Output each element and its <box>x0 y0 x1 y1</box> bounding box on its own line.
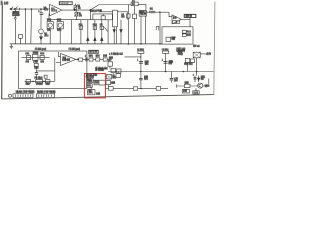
svg-text:+5V: +5V <box>168 63 172 65</box>
wire W4 top rail <box>99 4 132 6</box>
svg-text:Tx 8R2: Tx 8R2 <box>137 50 145 52</box>
resistor RB2 <box>134 6 136 14</box>
svg-text:4.7k: 4.7k <box>79 14 82 17</box>
svg-text:LM1458: LM1458 <box>62 59 71 62</box>
wire W2 output <box>62 9 90 11</box>
svg-text:MIX IN: MIX IN <box>185 16 192 18</box>
wire verticals from TB <box>113 27 115 44</box>
ground symbol <box>10 44 12 47</box>
connector tick J3 <box>19 8 21 10</box>
svg-text:D11 D12: D11 D12 <box>184 64 193 66</box>
wire relay right <box>200 53 205 55</box>
resistor RC2 <box>96 58 100 61</box>
resistor box on W9 mid <box>133 87 137 90</box>
resistor box on W9 right <box>156 87 160 91</box>
wire verticals from IC bottom <box>140 16 142 44</box>
capacitor C20 <box>139 61 143 63</box>
resistor R5 <box>74 4 76 11</box>
wire W1 input rail <box>10 8 50 10</box>
resistor in red box right <box>94 81 99 85</box>
resistor RB4 <box>26 80 31 84</box>
svg-text:1A: 1A <box>132 3 135 6</box>
wire drop to bus x160 <box>159 12 161 44</box>
resistor on W9 <box>109 87 114 91</box>
tick marks mid-right <box>113 30 115 33</box>
resistor in FB left <box>166 37 171 41</box>
resistor RB5 <box>45 80 50 84</box>
diode boxes mid <box>185 58 189 62</box>
node dots on bus <box>128 43 129 44</box>
label box LB2 <box>184 14 196 18</box>
wire W9 rail <box>105 87 108 89</box>
resistor R8 <box>79 58 83 61</box>
wire vertical x25.4 <box>24 9 26 44</box>
capacitor C31 <box>196 72 198 76</box>
red box internal wires <box>89 82 91 83</box>
bus ground rail <box>10 43 162 45</box>
svg-text:LEVEL: LEVEL <box>13 15 21 17</box>
wire vertical x31.5 <box>30 9 33 44</box>
connector J4 below B1 <box>14 16 16 18</box>
IC block TB <box>113 10 118 27</box>
svg-text:RV101: RV101 <box>36 84 43 86</box>
resistor RC1 <box>89 58 93 61</box>
svg-text:STB IN: STB IN <box>90 52 97 54</box>
capacitor C1 <box>40 9 42 13</box>
svg-text:OSC/LINE: OSC/LINE <box>60 3 69 5</box>
resistor RB1 <box>127 5 129 14</box>
resistor RD2 <box>117 69 122 73</box>
svg-text:TL071: TL071 <box>51 10 58 12</box>
resistor RA3 below <box>35 60 37 63</box>
wire Q5 right <box>203 85 209 87</box>
svg-text:HEAD (TOP VIEW): HEAD (TOP VIEW) <box>16 91 35 94</box>
svg-text:+12V: +12V <box>206 54 212 56</box>
wire W8 long rail <box>108 71 214 73</box>
wire A out to C20 node <box>125 56 141 58</box>
page border right <box>214 2 215 95</box>
svg-text:2t shield: 2t shield <box>95 69 104 72</box>
wire down and across <box>35 67 37 71</box>
capacitor C30 bottom-left-right <box>170 72 172 79</box>
fuse F1 <box>131 2 138 6</box>
wire W3 lower rail <box>49 19 112 21</box>
node dots W8 <box>140 71 141 72</box>
wire IC2 out <box>76 58 109 60</box>
resistor RD1 <box>111 69 116 73</box>
feedback wire IC2 <box>58 52 60 56</box>
transistor block bottom red box <box>88 90 95 95</box>
highlight red box <box>84 74 105 98</box>
wire relay down <box>196 58 198 72</box>
main unit box CX-500 <box>19 51 87 88</box>
diode D1 arrow <box>40 37 43 40</box>
IC block in red box <box>87 78 93 82</box>
capacitor C4 <box>150 10 155 12</box>
svg-text:LVL: LVL <box>47 30 52 32</box>
node dots row2 <box>32 80 35 83</box>
pot RV101 <box>36 80 43 84</box>
wire down <box>109 66 111 68</box>
resistor boxes right of red box <box>107 74 112 79</box>
pot RV1 <box>33 54 38 60</box>
svg-text:CX-500 (part): CX-500 (part) <box>69 48 81 51</box>
svg-text:SENS (TOP VIEW): SENS (TOP VIEW) <box>37 92 56 94</box>
trimmer R6 <box>75 10 77 20</box>
label box LB3 <box>89 50 99 53</box>
wire verticals to bus mid <box>71 20 73 44</box>
wire minus drop <box>48 14 50 20</box>
selector loop wires <box>89 10 91 20</box>
svg-text:SELECTOR: SELECTOR <box>90 11 102 13</box>
op-amp IC2 <box>61 54 76 66</box>
svg-text:4558: 4558 <box>87 80 93 83</box>
svg-text:RV52: RV52 <box>33 53 39 55</box>
op-amp IC3 <box>169 12 172 17</box>
wire drop to TP box <box>108 59 110 61</box>
resistor stub x20.5 <box>20 38 22 44</box>
switch S1 arm <box>90 5 99 10</box>
wire to C4 <box>146 11 150 13</box>
resistors in FB right <box>182 30 186 33</box>
page border corner blob top-left <box>1 1 3 6</box>
resistor TX2 top <box>163 51 169 53</box>
label box LB4 <box>193 91 199 94</box>
box B1 input network <box>14 10 16 12</box>
svg-text:PB REC: PB REC <box>34 78 43 80</box>
op-amp IC1 <box>50 4 62 15</box>
wire TB to drop <box>117 11 127 13</box>
IC regulator box <box>139 11 146 17</box>
label box LB1 <box>59 2 72 5</box>
svg-text:10k: 10k <box>78 8 81 10</box>
wire stub below RD boxes <box>112 73 114 77</box>
transistor Q5 <box>198 83 203 88</box>
resistor box x110 <box>108 62 112 66</box>
wire vertical x15.5 <box>14 19 16 44</box>
connector SENS diagram <box>36 94 54 98</box>
svg-text:TL-5: TL-5 <box>193 92 198 94</box>
svg-text:CX-500 (part): CX-500 (part) <box>35 48 47 51</box>
resistor marks on verticals <box>79 26 82 29</box>
pot row wire <box>22 57 50 59</box>
svg-text:Tx 8R2: Tx 8R2 <box>161 50 169 52</box>
resistor R40 <box>184 84 190 87</box>
feedback resistors under IC3 <box>172 21 176 24</box>
svg-text:2SC: 2SC <box>44 36 49 38</box>
svg-text:100k: 100k <box>33 61 39 63</box>
capacitor C9 <box>85 57 87 61</box>
svg-text:BAL: BAL <box>57 29 62 32</box>
relay RL1 box <box>193 52 200 58</box>
capacitor C8 <box>35 71 37 73</box>
diode D5 <box>198 76 200 82</box>
svg-text:4.7u: 4.7u <box>44 8 49 11</box>
resistor TX1 top <box>138 51 144 53</box>
wire base rail <box>177 85 198 87</box>
arrow symbols on verticals <box>87 37 89 40</box>
resistor R41 below <box>182 89 189 93</box>
wire F1 right <box>138 4 146 12</box>
wire W5 <box>155 11 169 13</box>
svg-text:78L05: 78L05 <box>140 14 147 16</box>
svg-text:REC out: REC out <box>193 45 200 48</box>
node dots on W1 <box>25 9 26 10</box>
transistor Q1 <box>39 29 44 34</box>
feedback box FB <box>162 27 193 44</box>
svg-text:2SA: 2SA <box>88 92 93 95</box>
resistor box in loop <box>101 16 105 20</box>
capacitor C21 <box>164 61 168 63</box>
resistor RA1 <box>27 55 31 59</box>
trimpot TP2 <box>57 22 63 29</box>
wire Q5 down <box>195 88 197 91</box>
connector HEAD diagram <box>9 94 12 97</box>
svg-text:relay: relay <box>178 54 184 56</box>
bracket mark x157 <box>156 26 159 30</box>
trimpot TP1 <box>47 22 53 29</box>
pot row 2 wire <box>25 80 55 82</box>
resistor small x45 <box>44 75 47 78</box>
resistor in red box <box>87 84 93 88</box>
capacitor C22 drop <box>140 72 142 79</box>
page border bottom (skewed) <box>2 95 214 99</box>
page border left <box>1 3 4 100</box>
wire op-amp out <box>181 18 190 20</box>
svg-text:◄ A blank out: ◄ A blank out <box>108 53 123 56</box>
connector J2 <box>14 8 16 10</box>
resistor RC3 <box>103 58 107 61</box>
resistor RA2 <box>40 55 44 59</box>
connector J1 <box>10 8 12 10</box>
wire W5b selector out <box>99 11 113 13</box>
svg-text:185: 185 <box>4 2 9 6</box>
